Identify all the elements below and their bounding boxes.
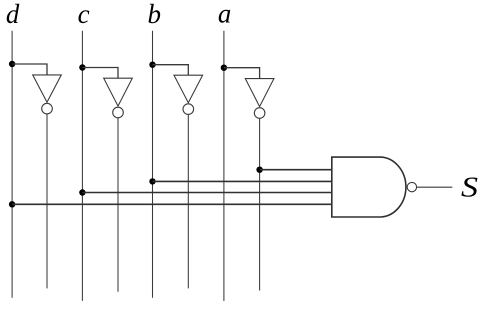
wire input d vertical bbox=[11, 31, 13, 298]
junction dot c to gate bbox=[79, 189, 85, 195]
svg-text:S: S bbox=[461, 171, 479, 203]
inverter U1 (d) triangle bbox=[33, 75, 62, 102]
junction dot c to inverter bbox=[79, 64, 85, 70]
junction dot b to inverter bbox=[149, 61, 155, 67]
junction dot a-bar to gate bbox=[256, 167, 262, 173]
junction dot d to inverter bbox=[9, 61, 15, 67]
inverter U2 bubble bbox=[113, 107, 124, 118]
junction dot a to inverter bbox=[221, 65, 227, 71]
wire c-bar vertical bbox=[117, 118, 119, 292]
wire a-bar to NAND input 1 bbox=[260, 169, 332, 171]
inverter U3 (b) triangle bbox=[174, 75, 203, 103]
wire b to NAND input 2 bbox=[153, 180, 332, 182]
wire a to inverter U4 bbox=[224, 68, 260, 79]
wire input b vertical bbox=[152, 31, 154, 298]
wire NAND output to S bbox=[417, 186, 453, 188]
wire d to NAND input 4 bbox=[12, 203, 332, 205]
junction dot b to gate bbox=[149, 178, 155, 184]
inverter U3 bubble bbox=[183, 104, 194, 115]
inverter U1 bubble bbox=[42, 103, 53, 114]
svg-text:c: c bbox=[78, 0, 90, 29]
wire c to inverter U2 bbox=[82, 68, 118, 79]
wire a-bar vertical bbox=[259, 118, 261, 290]
inverter U2 (c) triangle bbox=[104, 78, 133, 106]
wire b to inverter U3 bbox=[153, 65, 189, 76]
wire b-bar vertical bbox=[187, 114, 189, 288]
wire input c vertical bbox=[81, 31, 83, 301]
junction dot d to gate bbox=[9, 201, 15, 207]
wire d to inverter U1 bbox=[12, 64, 47, 75]
inverter U4 bubble bbox=[254, 108, 265, 119]
svg-text:b: b bbox=[148, 0, 162, 29]
nand gate U5 output bubble bbox=[407, 182, 416, 191]
inverter U4 (a) triangle bbox=[245, 79, 274, 107]
wire d-bar vertical bbox=[46, 114, 48, 289]
wire input a vertical bbox=[223, 31, 225, 301]
svg-text:a: a bbox=[218, 0, 231, 29]
svg-text:d: d bbox=[6, 0, 20, 29]
wire c to NAND input 3 bbox=[82, 192, 331, 194]
nand gate U5 body bbox=[332, 157, 406, 217]
